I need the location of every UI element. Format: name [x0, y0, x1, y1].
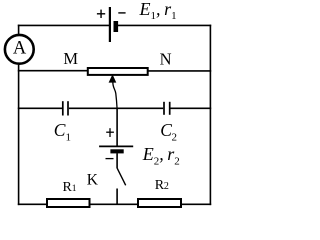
resistor R1 [47, 199, 90, 207]
wire bottom left [18, 203, 48, 205]
resistor R2 [138, 199, 181, 207]
capacitor C1 [63, 101, 68, 115]
wire row2 left (to rheostat) [18, 70, 88, 72]
battery E2 long plate [99, 145, 133, 147]
svg-text:E2, r2: E2, r2 [142, 144, 180, 168]
svg-text:1: 1 [66, 132, 72, 144]
wire switch upper [116, 153, 118, 168]
wire right border [209, 25, 211, 206]
battery E2 plus sign [106, 128, 114, 137]
capacitor C2 [164, 102, 170, 115]
wire middle vertical (slider junction to E2) [116, 108, 118, 147]
svg-text:A: A [13, 39, 27, 59]
svg-text:C: C [160, 120, 172, 140]
svg-text:2: 2 [164, 181, 169, 192]
wire row2 right (rheostat to right border) [148, 70, 212, 72]
battery E1 long plate [109, 7, 111, 42]
battery E1 plus sign [97, 10, 105, 18]
wire top-right horizontal [116, 24, 211, 26]
svg-text:C: C [54, 120, 66, 140]
battery E2 short thick plate [110, 149, 123, 153]
wire row3 right (C2 to right border) [171, 107, 212, 109]
battery E2 minus sign [106, 158, 114, 160]
wire left stub above ammeter [18, 25, 20, 35]
battery E1 minus sign [118, 12, 125, 14]
svg-text:N: N [160, 50, 172, 69]
wire row3 middle (C1 to C2) [69, 107, 163, 109]
svg-text:1: 1 [72, 184, 77, 194]
battery E1 short thick plate [114, 21, 119, 32]
wire switch lower [116, 189, 118, 205]
svg-text:2: 2 [172, 132, 178, 144]
wire bottom middle [90, 203, 139, 205]
wire top-left horizontal [18, 24, 110, 26]
svg-text:E1, r1: E1, r1 [139, 0, 177, 22]
wire row3 left (to C1) [18, 107, 62, 109]
switch K blade [117, 168, 125, 185]
wire left border below ammeter [18, 65, 20, 206]
rheostat MN box [88, 68, 148, 75]
svg-text:K: K [87, 171, 99, 188]
rheostat slider arrow [109, 74, 117, 107]
ammeter A [5, 35, 34, 64]
svg-text:M: M [63, 49, 78, 68]
wire bottom right [181, 203, 211, 205]
